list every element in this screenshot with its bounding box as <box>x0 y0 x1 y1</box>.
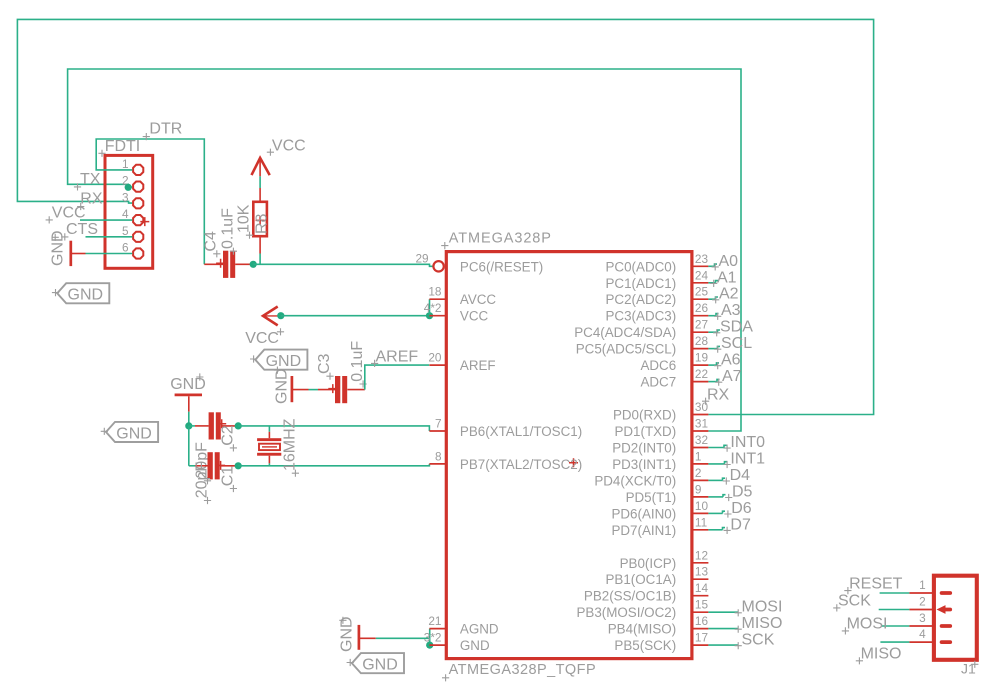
ground flag GND below FDTI <box>57 283 109 303</box>
wire net DTR <box>96 139 204 264</box>
svg-text:2: 2 <box>695 466 702 480</box>
svg-text:A1: A1 <box>717 269 737 286</box>
svg-text:GND: GND <box>68 287 104 304</box>
svg-text:29: 29 <box>415 251 428 265</box>
svg-text:D6: D6 <box>731 500 752 517</box>
wire AREF <box>365 365 429 390</box>
wire net SCK to J1 <box>879 609 910 611</box>
red origin cross C2 <box>217 419 226 428</box>
wire XTAL2 to chip pin8 <box>238 464 429 466</box>
wire net MOSI <box>708 611 738 613</box>
wire net D4 <box>708 479 722 481</box>
capacitor C3 <box>335 376 340 403</box>
junction dot GND pin <box>426 642 433 649</box>
pin line 4 J1 <box>909 641 934 643</box>
svg-text:GND: GND <box>50 230 67 266</box>
wire R8 bottom <box>259 254 261 265</box>
svg-text:0.1uF: 0.1uF <box>349 341 366 382</box>
svg-text:22: 22 <box>695 367 708 381</box>
svg-text:20: 20 <box>428 351 442 365</box>
junction dot C1 right <box>235 462 242 469</box>
svg-text:A0: A0 <box>719 253 739 270</box>
svg-text:4: 4 <box>919 627 926 641</box>
wire net INT1 <box>708 463 724 465</box>
wire AVCC vertical <box>429 299 431 316</box>
svg-text:15: 15 <box>695 598 709 612</box>
pin stub 25 right <box>692 298 708 300</box>
svg-text:SCK: SCK <box>742 632 775 649</box>
wire ground to C3 <box>309 389 319 391</box>
pin stub 9 right <box>692 496 708 498</box>
svg-text:20pF: 20pF <box>193 462 210 499</box>
wire net D5 <box>708 496 723 498</box>
svg-text:14: 14 <box>695 581 709 595</box>
wire net SCL <box>708 348 717 350</box>
junction dot C2 right <box>235 422 242 429</box>
wire net A0 <box>708 265 714 267</box>
svg-text:GND: GND <box>116 425 152 442</box>
svg-text:AGND: AGND <box>460 622 499 637</box>
svg-text:17: 17 <box>695 631 708 645</box>
ground symbol at AGND <box>358 625 361 650</box>
svg-text:PC1(ADC1): PC1(ADC1) <box>606 276 677 291</box>
wire C4 to pin 29 <box>253 264 433 266</box>
ground symbol at FDTI pin6 <box>69 241 72 266</box>
wire caps left vertical <box>188 426 190 466</box>
wire net RXD (pin30 to FDTI pin3 long loop) <box>17 19 873 414</box>
svg-text:7: 7 <box>435 417 442 431</box>
svg-text:D5: D5 <box>732 483 753 500</box>
pin stub 26 right <box>692 315 708 317</box>
connector J1 body <box>934 576 977 660</box>
svg-text:ATMEGA328P: ATMEGA328P <box>449 230 552 246</box>
svg-text:16MHZ: 16MHZ <box>281 418 298 471</box>
junction dot AVCC <box>426 312 433 319</box>
pin stub 17 right <box>692 644 708 646</box>
wire R8 top <box>259 188 261 202</box>
svg-text:C2: C2 <box>219 425 236 446</box>
svg-text:PC3(ADC3): PC3(ADC3) <box>606 309 677 324</box>
svg-text:PB4(MISO): PB4(MISO) <box>608 622 676 637</box>
ground flag GND near crystal <box>106 422 158 442</box>
ground flag GND bottom <box>352 653 404 673</box>
svg-text:PD5(T1): PD5(T1) <box>626 490 677 505</box>
pin stub 2 right <box>692 479 708 481</box>
pin stub 32 right <box>692 447 708 449</box>
svg-text:11: 11 <box>695 515 707 529</box>
wire FDTI pin6 to ground <box>86 253 133 255</box>
pin line 3 J1 <box>909 625 934 627</box>
wire net A6 <box>708 364 716 366</box>
svg-text:C4: C4 <box>203 231 220 252</box>
svg-text:PD1(TXD): PD1(TXD) <box>614 424 676 439</box>
svg-text:31: 31 <box>695 417 708 431</box>
pad pin 5 FDTI <box>133 232 143 242</box>
svg-text:12: 12 <box>695 548 708 562</box>
svg-text:GND: GND <box>362 657 398 674</box>
svg-text:SDA: SDA <box>720 319 753 336</box>
pin stub 13 right <box>692 578 708 580</box>
svg-text:3: 3 <box>122 190 129 204</box>
power symbol VCC left-arrow <box>263 307 278 326</box>
svg-text:3: 3 <box>919 611 926 625</box>
junction dot FDTI pin2 <box>125 184 132 191</box>
wire XTAL1 to chip pin7 <box>238 426 429 431</box>
svg-text:GND: GND <box>266 353 302 370</box>
pin stub 16 right <box>692 628 708 630</box>
pin stub 15 right <box>692 611 708 613</box>
wire net A3 <box>708 315 716 317</box>
svg-text:INT0: INT0 <box>730 434 765 451</box>
svg-text:A3: A3 <box>721 302 741 319</box>
wire net SDA <box>708 331 717 333</box>
svg-text:ADC6: ADC6 <box>640 358 676 373</box>
pin stub 11 right <box>692 529 708 531</box>
svg-text:25: 25 <box>695 285 709 299</box>
svg-text:C3: C3 <box>316 353 333 374</box>
pin stub 27 right <box>692 331 708 333</box>
red origin cross FDTI <box>140 217 149 226</box>
wire C1 left <box>189 465 195 467</box>
pin stub 7 left <box>429 430 446 432</box>
svg-text:PB5(SCK): PB5(SCK) <box>614 638 676 653</box>
capacitor C4 <box>223 251 228 278</box>
svg-text:32: 32 <box>695 433 708 447</box>
pad pin 1 FDTI <box>133 165 143 175</box>
wire ground to chip <box>376 637 430 639</box>
svg-text:C1: C1 <box>219 466 236 487</box>
pin stub 24 right <box>692 282 708 284</box>
svg-text:16: 16 <box>695 614 709 628</box>
pad pin 4 FDTI <box>133 215 143 225</box>
pin line 1 J1 <box>909 592 934 594</box>
pad pin 3 FDTI <box>133 198 143 208</box>
svg-text:28: 28 <box>695 334 709 348</box>
power symbol VCC up-arrow <box>252 158 270 175</box>
pin stub 22 right <box>692 381 708 383</box>
svg-text:3*2: 3*2 <box>424 631 442 645</box>
svg-text:A2: A2 <box>719 286 739 303</box>
pad pin 1 J1 <box>940 591 952 595</box>
svg-text:PC2(ADC2): PC2(ADC2) <box>606 292 677 307</box>
pin stub 19 right <box>692 364 708 366</box>
svg-text:PC0(ADC0): PC0(ADC0) <box>606 259 677 274</box>
svg-text:13: 13 <box>695 565 709 579</box>
wire net MISO <box>708 628 738 630</box>
crystal Y1 stub top <box>268 426 270 432</box>
wire net MOSI to J1 <box>881 625 909 627</box>
svg-text:MOSI: MOSI <box>847 616 888 633</box>
svg-text:RX: RX <box>707 386 730 403</box>
svg-text:PD2(INT0): PD2(INT0) <box>612 441 676 456</box>
resistor R8 <box>253 202 267 236</box>
wire net A1 <box>708 282 715 284</box>
svg-text:CTS: CTS <box>66 221 98 238</box>
svg-text:RESET: RESET <box>849 575 903 592</box>
wire VCC to chip <box>281 315 430 317</box>
capacitor C1 <box>208 452 213 479</box>
svg-text:10: 10 <box>695 499 709 513</box>
crystal Y1 stub bottom <box>268 456 270 464</box>
red origin cross U1 <box>569 458 578 467</box>
pad pin 4 J1 <box>940 640 952 644</box>
red origin cross C4 <box>216 259 225 268</box>
svg-text:24: 24 <box>695 268 709 282</box>
svg-text:PD4(XCK/T0): PD4(XCK/T0) <box>594 473 676 488</box>
svg-text:PB2(SS/OC1B): PB2(SS/OC1B) <box>584 589 676 604</box>
wire net CTS <box>86 236 133 238</box>
svg-text:SCK: SCK <box>838 593 871 610</box>
svg-text:PB1(OC1A): PB1(OC1A) <box>605 572 676 587</box>
pin stub 10 right <box>692 512 708 514</box>
svg-text:VCC: VCC <box>460 309 489 324</box>
wire C2 left <box>189 425 195 427</box>
svg-text:10K: 10K <box>235 204 252 233</box>
svg-text:ATMEGA328P_TQFP: ATMEGA328P_TQFP <box>449 662 596 678</box>
wire AGND-GND vertical <box>429 629 431 646</box>
svg-text:A7: A7 <box>722 368 742 385</box>
ground flag GND near C3 <box>255 350 307 370</box>
connector FDTI body <box>105 155 153 268</box>
svg-text:MISO: MISO <box>742 615 783 632</box>
wire net A7 <box>708 381 717 383</box>
svg-text:PD7(AIN1): PD7(AIN1) <box>611 523 676 538</box>
pin stub 1 right <box>692 463 708 465</box>
svg-text:PC4(ADC4/SDA): PC4(ADC4/SDA) <box>574 325 676 340</box>
junction dot C4-R8 <box>250 261 257 268</box>
svg-text:D4: D4 <box>730 467 751 484</box>
svg-text:4*2: 4*2 <box>424 301 442 315</box>
capacitor C2 <box>209 412 214 439</box>
pin stub 31 right <box>692 430 708 432</box>
svg-text:6: 6 <box>122 241 129 255</box>
red origin cross R8 <box>256 216 265 225</box>
svg-text:PD6(AIN0): PD6(AIN0) <box>611 506 676 521</box>
svg-text:ADC7: ADC7 <box>640 375 676 390</box>
pin stub 21 left <box>429 628 446 630</box>
svg-text:J1: J1 <box>961 661 976 677</box>
junction dot C2 left <box>185 422 192 429</box>
svg-text:21: 21 <box>428 614 441 628</box>
red origin cross C3 <box>328 384 337 393</box>
pin stub 18 left <box>429 298 446 300</box>
svg-text:PC5(ADC5/SCL): PC5(ADC5/SCL) <box>576 342 676 357</box>
pin line 2 J1 <box>909 609 934 611</box>
pin stub 8 left <box>429 463 446 465</box>
svg-text:GND: GND <box>170 376 206 393</box>
pin stub 20 left <box>429 364 446 366</box>
svg-text:PB0(ICP): PB0(ICP) <box>620 556 677 571</box>
svg-text:AREF: AREF <box>460 358 496 373</box>
pad pin 6 FDTI <box>133 248 143 258</box>
wire net TXD (pin31 to FDTI pin2 loop) <box>68 69 741 431</box>
svg-text:PD3(INT1): PD3(INT1) <box>612 457 676 472</box>
wire net SCK <box>708 644 738 646</box>
wire net D7 <box>708 529 722 531</box>
pin stub 12 right <box>692 562 708 564</box>
ground symbol at C3 <box>291 376 294 402</box>
svg-text:AVCC: AVCC <box>460 292 497 307</box>
pin stub 23 right <box>692 265 708 267</box>
svg-text:GND: GND <box>339 616 356 652</box>
svg-text:PB6(XTAL1/TOSC1): PB6(XTAL1/TOSC1) <box>460 424 582 439</box>
svg-text:0.1uF: 0.1uF <box>219 208 236 249</box>
junction dot at VCC arrow <box>277 312 284 319</box>
svg-text:MISO: MISO <box>861 646 902 663</box>
pad pin 2 FDTI <box>133 182 143 192</box>
IC U1 ATMEGA328P body <box>446 252 692 659</box>
svg-text:1: 1 <box>919 578 926 592</box>
svg-text:GND: GND <box>460 638 490 653</box>
svg-text:19: 19 <box>695 351 708 365</box>
svg-text:MOSI: MOSI <box>742 599 783 616</box>
svg-text:D7: D7 <box>730 516 751 533</box>
svg-text:1: 1 <box>122 157 129 171</box>
svg-text:26: 26 <box>695 301 709 315</box>
wire net A2 <box>708 298 715 300</box>
pin stub 4*2 left <box>429 315 446 317</box>
svg-text:FDTI: FDTI <box>105 138 141 155</box>
svg-text:5: 5 <box>122 224 129 238</box>
wire net RESET to J1 <box>880 592 910 594</box>
crystal Y1 <box>257 438 281 441</box>
svg-text:PD0(RXD): PD0(RXD) <box>613 408 676 423</box>
svg-text:VCC: VCC <box>52 204 86 221</box>
pad pin 3 J1 <box>940 624 952 628</box>
svg-text:R8: R8 <box>253 213 270 234</box>
svg-text:VCC: VCC <box>272 137 306 154</box>
svg-text:PB3(MOSI/OC2): PB3(MOSI/OC2) <box>576 605 676 620</box>
svg-text:18: 18 <box>428 285 442 299</box>
svg-text:GND: GND <box>274 368 291 404</box>
svg-text:1: 1 <box>695 449 702 463</box>
svg-text:INT1: INT1 <box>730 450 765 467</box>
pad pin 2 J1 <box>940 608 952 612</box>
svg-text:4: 4 <box>122 207 129 221</box>
svg-text:AREF: AREF <box>376 348 419 365</box>
pin stub 3*2 left <box>429 644 446 646</box>
pin stub 28 right <box>692 348 708 350</box>
wire net INT0 <box>708 447 724 449</box>
pin 29 circle /RESET <box>433 261 443 271</box>
wire net D6 <box>708 512 722 514</box>
pin stub 14 right <box>692 595 708 597</box>
wire net MISO to J1 <box>880 641 909 643</box>
svg-text:27: 27 <box>695 318 708 332</box>
svg-text:8: 8 <box>435 449 442 463</box>
svg-text:SCL: SCL <box>721 335 752 352</box>
svg-text:VCC: VCC <box>245 330 279 347</box>
svg-text:A6: A6 <box>721 352 741 369</box>
wire net VCC to FDTI pin4 <box>80 219 132 221</box>
svg-text:PB7(XTAL2/TOSC2): PB7(XTAL2/TOSC2) <box>460 457 582 472</box>
svg-text:DTR: DTR <box>149 120 182 137</box>
pin stub 30 right <box>692 414 708 416</box>
svg-text:PC6(/RESET): PC6(/RESET) <box>460 259 543 274</box>
red origin cross C1 <box>216 461 225 470</box>
svg-text:2: 2 <box>919 595 926 609</box>
svg-text:9: 9 <box>695 482 702 496</box>
svg-text:23: 23 <box>695 252 709 266</box>
wire ground down to caps <box>188 412 190 426</box>
svg-text:TX: TX <box>80 171 101 188</box>
